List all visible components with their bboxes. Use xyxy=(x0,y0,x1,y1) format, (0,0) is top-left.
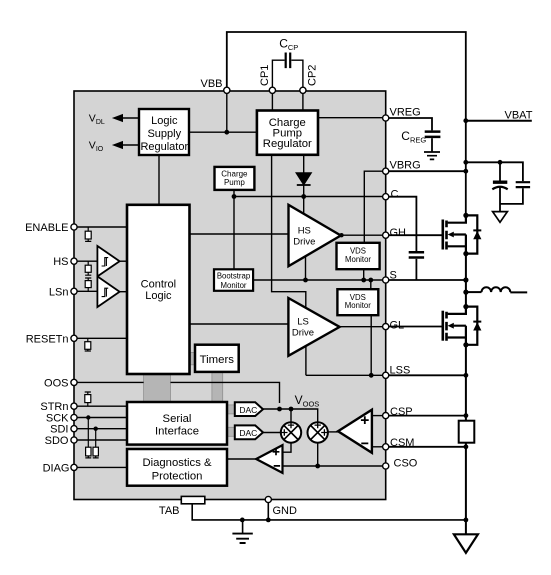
wire SDI to Serial Interface xyxy=(77,428,127,430)
resistor R-sense xyxy=(459,421,475,443)
wire bootstrap capacitor to S line xyxy=(415,259,417,280)
wire HS pin to schmitt xyxy=(77,260,97,262)
bus Control Logic to Serial Interface xyxy=(144,373,171,403)
node GH apex junction xyxy=(339,233,343,237)
wire LSn pin to schmitt xyxy=(77,290,97,292)
wire CP1 to CCP xyxy=(272,60,284,87)
wire CP1 into Charge Pump Regulator xyxy=(271,93,273,110)
wire Charge Pump Regulator to VREG terminal xyxy=(318,117,383,119)
pad TAB xyxy=(181,496,205,503)
resistor pull-up STRn xyxy=(85,392,91,406)
svg-text:GL: GL xyxy=(390,320,405,332)
capacitor CREG plates xyxy=(425,132,441,137)
resistor pull-down SDI xyxy=(93,429,99,458)
svg-text:Diagnostics &: Diagnostics & xyxy=(142,457,212,469)
svg-text:CCP: CCP xyxy=(279,37,298,53)
svg-text:Timers: Timers xyxy=(200,354,235,366)
svg-text:SDO: SDO xyxy=(45,435,69,447)
terminal STRn xyxy=(71,403,77,409)
box Bootstrap Monitor xyxy=(214,269,253,291)
node CSO M2 junction xyxy=(315,464,320,469)
wire CPR left output down to LS Drive supply xyxy=(272,155,306,309)
wire M2 output to CSO line xyxy=(317,443,319,466)
wire CP2 into Charge Pump Regulator xyxy=(302,93,304,110)
svg-text:TAB: TAB xyxy=(159,505,180,517)
svg-text:CP2: CP2 xyxy=(307,65,319,86)
label Control Logic xyxy=(141,279,176,302)
node VBRG rail junction xyxy=(463,169,468,174)
wire STRn to Serial Interface xyxy=(77,405,127,407)
node Q1 drain junction xyxy=(463,213,468,218)
node S VDS1 junction xyxy=(361,278,366,283)
terminal CSO xyxy=(383,463,389,469)
svg-text:CP1: CP1 xyxy=(259,65,271,86)
wire LS Drive bottom to LSS line xyxy=(305,347,307,376)
svg-text:S: S xyxy=(390,270,397,282)
node SCK pull junction xyxy=(86,415,90,419)
wire C net xyxy=(234,190,383,269)
wire VDS monitor 2 top to S line xyxy=(370,280,372,289)
svg-text:Protection: Protection xyxy=(152,470,203,482)
label VDS Monitor 1 xyxy=(345,247,371,264)
svg-text:VBAT: VBAT xyxy=(505,110,533,122)
svg-text:Regulator: Regulator xyxy=(263,138,312,150)
terminal ENABLE xyxy=(71,224,77,230)
ground symbol CREG xyxy=(424,152,440,159)
box Charge Pump Regulator xyxy=(257,111,318,155)
svg-text:HS: HS xyxy=(298,225,311,236)
label Serial Interface xyxy=(155,413,199,438)
wire Logic Supply Regulator to Control Logic xyxy=(158,155,160,205)
svg-text:Monitor: Monitor xyxy=(221,281,247,290)
svg-text:VBRG: VBRG xyxy=(390,160,421,172)
box Serial Interface xyxy=(127,402,227,445)
wire CSM terminal to sense resistor xyxy=(389,446,466,448)
wire CPR right output to diode xyxy=(303,155,305,174)
node S rail junction xyxy=(463,277,468,282)
wire SCK to Serial Interface xyxy=(77,417,127,419)
label Charge Pump small xyxy=(221,169,248,187)
op-amp LS Drive xyxy=(288,298,339,356)
node bottom ground rail junction xyxy=(464,518,469,523)
svg-text:Logic: Logic xyxy=(151,115,178,127)
terminal LSS xyxy=(383,372,389,378)
DAC D1 xyxy=(235,402,263,416)
wire GL terminal to low-side gate xyxy=(389,326,443,328)
svg-text:Bootstrap: Bootstrap xyxy=(217,271,251,280)
terminal VBRG xyxy=(383,168,389,174)
ground arrow bottom right xyxy=(454,534,478,553)
wire LSS net xyxy=(306,374,383,376)
arrowhead VIO xyxy=(114,142,122,148)
wire bulk capacitors bottom to ground arrow xyxy=(500,187,523,212)
bus Control Logic to Timers xyxy=(189,352,196,364)
terminal GH xyxy=(383,232,389,238)
svg-text:DAC: DAC xyxy=(239,405,257,415)
terminal GL xyxy=(383,324,389,330)
wire LS Drive output to GL terminal xyxy=(340,326,383,328)
svg-text:DAC: DAC xyxy=(239,428,257,438)
wire phase rail upper FET source to lower FET drain xyxy=(465,254,467,307)
transistor Q2 low-side MOSFET xyxy=(443,307,482,345)
node VBAT junction xyxy=(463,118,468,123)
node C net charge pump junction xyxy=(232,194,237,199)
svg-text:CSO: CSO xyxy=(394,458,418,470)
node LSS rail junction xyxy=(464,373,469,378)
bus Serial Interface to DAC2 xyxy=(226,427,235,436)
svg-text:VBB: VBB xyxy=(200,78,222,90)
svg-text:Control: Control xyxy=(141,279,176,291)
wire CSP internal xyxy=(372,415,383,417)
diode charge pump (cathode to C node) xyxy=(296,173,311,185)
svg-text:ENABLE: ENABLE xyxy=(25,222,68,234)
node LSS VDS2 junction xyxy=(369,373,374,378)
terminal SDO xyxy=(71,437,77,443)
op-amp current sense CSP/CSM xyxy=(338,410,372,453)
box VDS Monitor low side xyxy=(337,289,378,315)
wire SDO to Serial Interface xyxy=(77,439,127,441)
svg-text:Monitor: Monitor xyxy=(345,301,371,310)
node C net diode junction xyxy=(301,194,306,199)
box Charge Pump xyxy=(215,167,255,190)
label VDS Monitor 2 xyxy=(345,293,371,310)
wire HS Drive output to GH terminal xyxy=(341,234,383,236)
svg-text:Serial: Serial xyxy=(163,413,192,425)
terminal SCK xyxy=(71,414,77,420)
transistor Q1 high-side MOSFET xyxy=(443,215,482,253)
node bulk cap split junction xyxy=(498,160,503,165)
terminal VREG xyxy=(383,115,389,121)
wire TAB to bottom ground line xyxy=(192,504,466,520)
ground arrow near bulk capacitors xyxy=(493,212,508,223)
svg-text:CREG: CREG xyxy=(401,129,426,145)
box Diagnostics and Protection xyxy=(127,449,227,486)
wire CREG to ground xyxy=(431,138,433,152)
terminal CSM xyxy=(383,444,389,450)
wire CP2 to CCP xyxy=(291,60,303,87)
wire CSO net xyxy=(283,465,383,467)
schmitt trigger HS xyxy=(97,246,119,276)
terminal C xyxy=(383,194,389,200)
svg-text:Supply: Supply xyxy=(147,128,181,140)
terminal CP1 xyxy=(269,87,275,93)
node S left junction xyxy=(303,278,308,283)
inductor L1 xyxy=(481,287,510,292)
svg-text:Drive: Drive xyxy=(292,328,314,339)
wire DAC2 to multiplier M1 xyxy=(263,432,281,434)
svg-text:LSn: LSn xyxy=(49,286,69,298)
label Bootstrap Monitor xyxy=(217,271,251,290)
label Logic Supply Regulator xyxy=(140,115,188,153)
wire VBRG terminal to rail xyxy=(389,170,466,172)
node CSP rail junction xyxy=(464,413,469,418)
diode Q2 body xyxy=(466,307,477,345)
wire amp output to multiplier M2 xyxy=(328,431,338,433)
wire VDS monitor 1 bottom to S line xyxy=(363,269,365,280)
wire VDL output arrow line xyxy=(119,117,139,119)
terminal VBB xyxy=(224,87,230,93)
wire Bootstrap Monitor to S node xyxy=(253,279,305,281)
op-amp HS Drive xyxy=(289,205,341,266)
terminal GND xyxy=(265,496,271,502)
wire rail lower FET source to sense resistor xyxy=(465,345,467,421)
node Q2 drain junction xyxy=(463,304,468,309)
wire schmitt HS out xyxy=(120,260,127,262)
wire CSM internal xyxy=(372,446,383,448)
op-amp comparator U3 xyxy=(256,445,282,473)
wire top rail VBB to right rail xyxy=(227,32,466,215)
resistor pull-down ENABLE xyxy=(85,227,91,241)
svg-text:SDI: SDI xyxy=(50,424,68,436)
node SDI pull junction xyxy=(94,427,98,431)
wire VBRG internal to VDS monitor 1 xyxy=(364,171,382,243)
node CSM rail junction xyxy=(464,444,469,449)
arrowhead VDL xyxy=(114,115,122,121)
terminal OOS xyxy=(71,379,77,385)
resistor pull-down RESETn xyxy=(85,338,91,351)
svg-text:CSP: CSP xyxy=(390,406,413,418)
wire VBB junction to regulators xyxy=(189,93,257,132)
svg-text:OOS: OOS xyxy=(44,377,68,389)
box VDS Monitor high side xyxy=(337,243,380,269)
svg-text:Logic: Logic xyxy=(145,290,172,302)
box Control Logic xyxy=(127,205,190,374)
bus Timers to Serial Interface xyxy=(212,371,223,403)
label HS Drive xyxy=(293,225,315,247)
diode Q1 body xyxy=(466,215,477,253)
node VOOS junction xyxy=(277,407,282,412)
terminal CP2 xyxy=(300,87,306,93)
wire ENABLE to Control Logic xyxy=(77,226,127,228)
terminal HS xyxy=(71,258,77,264)
box Logic Supply Regulator xyxy=(139,109,189,155)
wire DIAG to Diagnostics xyxy=(77,466,127,468)
svg-text:Pump: Pump xyxy=(224,178,245,187)
label Charge Pump Regulator xyxy=(263,117,312,150)
multiplier M1 xyxy=(281,422,301,443)
node Q1 source junction xyxy=(463,251,468,256)
node GND down junction xyxy=(266,518,271,523)
svg-text:LSS: LSS xyxy=(390,365,411,377)
wire inductor line xyxy=(466,291,482,293)
svg-text:RESETn: RESETn xyxy=(26,333,69,345)
wire GH terminal to high-side gate xyxy=(389,234,443,236)
wire diode to C node and HS Drive supply xyxy=(303,185,305,215)
capacitor CCP plates xyxy=(286,53,291,69)
svg-text:HS: HS xyxy=(53,256,68,268)
wire LSS terminal to rail xyxy=(389,374,466,376)
wire GND terminal down xyxy=(267,503,269,520)
label LS Drive xyxy=(292,316,314,338)
wire OOS to VOOS node xyxy=(77,382,279,403)
svg-text:DIAG: DIAG xyxy=(43,462,70,474)
capacitor C-bulk ceramic plates xyxy=(516,182,530,187)
svg-text:Regulator: Regulator xyxy=(140,141,188,153)
node VBB junction xyxy=(224,130,229,135)
node ground symbol junction xyxy=(240,518,245,523)
IC block body xyxy=(74,91,386,500)
svg-text:STRn: STRn xyxy=(40,401,68,413)
node M1 top junction xyxy=(289,407,294,412)
ground symbol bottom xyxy=(242,520,244,534)
wire bulk capacitor branch from rail xyxy=(466,162,523,181)
terminal SDI xyxy=(71,426,77,432)
capacitor C-bulk electrolytic plates xyxy=(493,182,507,183)
svg-text:LS: LS xyxy=(297,316,309,327)
terminal S xyxy=(383,277,389,283)
wire CSP terminal to sense resistor xyxy=(389,415,466,417)
terminal RESETn xyxy=(71,335,77,341)
resistor pull-down HS xyxy=(85,261,91,275)
svg-text:Drive: Drive xyxy=(293,236,315,247)
svg-text:SCK: SCK xyxy=(46,413,69,425)
svg-text:Charge: Charge xyxy=(221,169,248,178)
svg-text:C: C xyxy=(391,189,399,201)
bus Serial Interface to DAC1 xyxy=(226,405,235,414)
terminal LSn xyxy=(71,288,77,294)
wire VDS monitor 2 bottom to LSS line xyxy=(370,315,372,375)
DAC D2 xyxy=(235,425,263,439)
svg-text:Monitor: Monitor xyxy=(345,255,371,264)
wire VBAT branch xyxy=(466,120,532,122)
node Q2 source junction xyxy=(463,342,468,347)
wire comparator output to Diagnostics xyxy=(227,458,256,460)
wire rail sense resistor to bottom ground xyxy=(465,443,467,535)
svg-text:CSM: CSM xyxy=(390,437,414,449)
box Timers xyxy=(195,345,239,372)
resistor pull-up LSn xyxy=(85,278,91,291)
capacitor C-bootstrap plates xyxy=(409,252,424,257)
wire VREG to CREG capacitor xyxy=(389,118,432,130)
svg-text:GH: GH xyxy=(390,227,407,239)
wire S net xyxy=(306,279,383,281)
resistor pull-down SCK xyxy=(85,418,91,458)
wire VOOS net DAC1 to multipliers xyxy=(263,409,318,422)
node inductor junction xyxy=(463,290,468,295)
wire RESETn to Control Logic xyxy=(77,337,127,339)
multiplier M2 xyxy=(308,422,328,443)
svg-text:VREG: VREG xyxy=(390,107,421,119)
svg-text:GND: GND xyxy=(273,505,298,517)
wire M1 output to comparator xyxy=(283,443,292,453)
wire Control Logic to LS Drive input xyxy=(190,323,289,325)
terminal DIAG xyxy=(71,464,77,470)
wire HS Drive bottom to S node xyxy=(305,257,307,281)
wire VIO output arrow line xyxy=(119,144,139,146)
svg-text:Interface: Interface xyxy=(155,426,199,438)
label Diagnostics and Protection xyxy=(142,457,212,482)
wire Control Logic to HS Drive input xyxy=(190,233,289,235)
wire S terminal to rail xyxy=(389,279,466,281)
node S VDS2 junction xyxy=(368,278,373,283)
schmitt trigger LSn xyxy=(97,276,119,307)
wire schmitt LSn out xyxy=(120,291,127,293)
wire C terminal to bootstrap capacitor xyxy=(389,197,416,252)
node bulk cap branch junction xyxy=(463,160,468,165)
terminal CSP xyxy=(383,413,389,419)
